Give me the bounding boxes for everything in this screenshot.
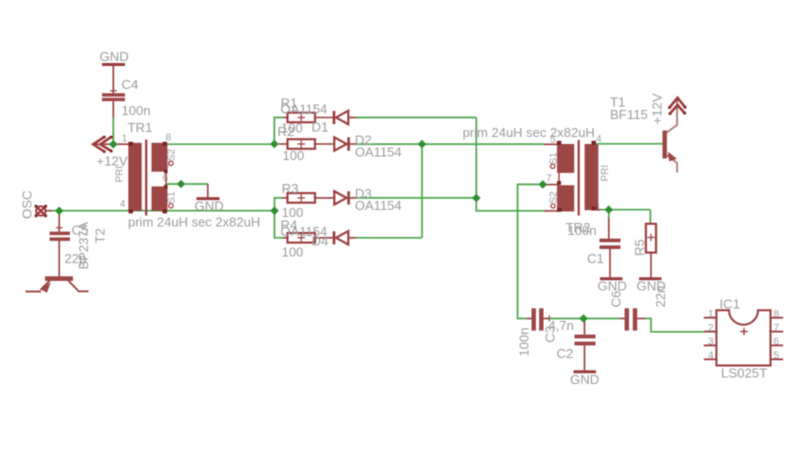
svg-text:1: 1 <box>708 309 714 320</box>
svg-text:100n: 100n <box>122 103 151 118</box>
svg-text:prim 24uH sec 2x82uH: prim 24uH sec 2x82uH <box>128 215 260 230</box>
svg-text:100: 100 <box>282 245 304 260</box>
svg-text:BP237A: BP237A <box>76 221 91 269</box>
svg-text:C4: C4 <box>122 77 139 92</box>
svg-text:BF115: BF115 <box>610 107 648 122</box>
svg-text:+12V: +12V <box>650 93 665 124</box>
svg-text:OA1154: OA1154 <box>281 102 328 117</box>
svg-text:R5: R5 <box>632 239 647 256</box>
svg-text:S2: S2 <box>548 191 559 204</box>
svg-text:PRI: PRI <box>115 166 126 183</box>
svg-text:4,7n: 4,7n <box>548 318 573 333</box>
svg-text:S1: S1 <box>548 152 559 165</box>
svg-text:1: 1 <box>122 134 128 145</box>
svg-text:S1: S1 <box>167 191 178 204</box>
svg-text:2: 2 <box>708 323 714 334</box>
svg-text:4: 4 <box>120 199 126 210</box>
svg-text:GND: GND <box>195 199 224 214</box>
svg-text:C6: C6 <box>609 291 624 308</box>
svg-text:prim 24uH sec 2x82uH: prim 24uH sec 2x82uH <box>463 125 595 140</box>
svg-text:OA1154: OA1154 <box>355 145 402 160</box>
svg-text:100n: 100n <box>517 328 532 357</box>
svg-text:TR1: TR1 <box>128 120 153 135</box>
svg-text:S2: S2 <box>167 148 178 161</box>
svg-text:T2: T2 <box>93 228 108 243</box>
svg-text:6: 6 <box>774 337 780 348</box>
svg-text:22n: 22n <box>653 286 668 308</box>
svg-text:5: 5 <box>550 134 556 145</box>
svg-text:8: 8 <box>774 309 780 320</box>
svg-text:GND: GND <box>100 49 129 64</box>
svg-text:5: 5 <box>774 351 780 362</box>
svg-text:C1: C1 <box>587 251 604 266</box>
svg-text:LS025T: LS025T <box>721 366 767 381</box>
svg-text:R3: R3 <box>282 181 299 196</box>
svg-text:R2: R2 <box>278 124 295 139</box>
svg-text:D1: D1 <box>312 120 329 135</box>
svg-text:C2: C2 <box>557 346 574 361</box>
svg-text:OSC: OSC <box>20 190 35 219</box>
svg-text:OA1154: OA1154 <box>355 198 402 213</box>
svg-text:100n: 100n <box>568 223 597 238</box>
svg-text:D4: D4 <box>312 234 329 249</box>
svg-text:PRI: PRI <box>600 165 611 182</box>
svg-text:7: 7 <box>546 173 552 184</box>
svg-text:3: 3 <box>708 337 714 348</box>
svg-text:100: 100 <box>283 148 305 163</box>
svg-text:4: 4 <box>708 351 714 362</box>
svg-text:GND: GND <box>570 372 599 387</box>
svg-text:7: 7 <box>774 323 780 334</box>
